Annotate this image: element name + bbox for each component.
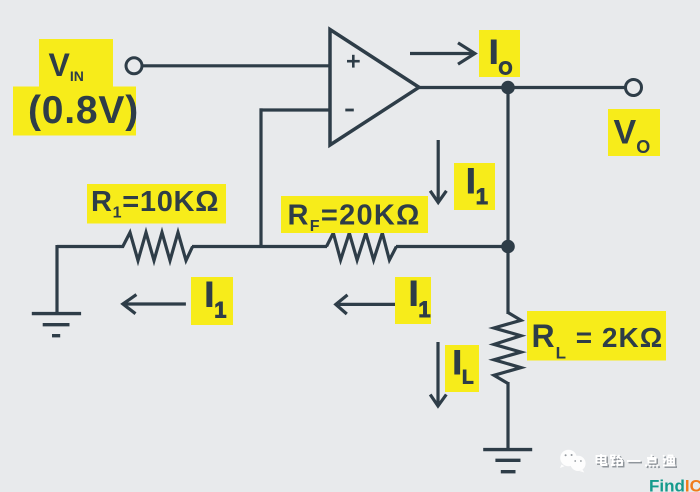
svg-text:RF=20KΩ: RF=20KΩ — [288, 200, 421, 236]
right ground — [483, 450, 532, 472]
resistor RL — [494, 313, 521, 384]
op-amp minus sign — [345, 109, 354, 112]
label IL — [445, 345, 479, 392]
terminal: VIN input circle — [126, 58, 142, 74]
arrow: I1 left (through R1) — [123, 295, 186, 314]
wire: output node down to feedback node — [506, 88, 509, 247]
label Io — [479, 30, 520, 77]
label I1 left — [191, 277, 233, 325]
left ground — [32, 314, 81, 336]
op-amp plus sign — [347, 55, 360, 68]
arrow: IL down into RL — [430, 342, 446, 406]
label (0.8V) — [13, 87, 136, 136]
label R1=10K — [87, 184, 226, 224]
watermark text 电路一点通 — [598, 456, 677, 469]
label RF=20K — [281, 196, 428, 233]
wire: RF to node — [396, 245, 508, 248]
arrow: I1 down into feedback node — [430, 140, 446, 202]
wire: left ground to R1 — [57, 245, 120, 248]
wire: op-amp -in horizontal — [260, 108, 332, 111]
label VIN — [39, 39, 113, 87]
op-amp U1 — [330, 30, 419, 146]
svg-text:FindIC: FindIC — [649, 477, 700, 492]
wire: input terminal to op-amp +in — [142, 64, 331, 67]
node: output junction — [501, 81, 515, 95]
terminal: VO output circle — [626, 80, 642, 96]
arrow: I1 left (through RF) — [336, 295, 397, 314]
node: feedback junction — [501, 240, 515, 254]
arrow: Io current right — [410, 43, 475, 64]
wire: op-amp output to terminal — [419, 86, 627, 89]
label I1 middle — [395, 277, 431, 324]
svg-text:(0.8V): (0.8V) — [28, 89, 139, 132]
wire: RL to right ground — [506, 382, 509, 450]
wire: left ground stub — [55, 245, 58, 313]
svg-text:R1=10KΩ: R1=10KΩ — [91, 186, 219, 222]
watermark wechat icon — [560, 450, 586, 473]
wire: node down to RL — [506, 247, 509, 315]
resistor RF — [327, 233, 397, 260]
wire: R1 to RF — [192, 245, 327, 248]
label RL=2K — [527, 311, 666, 361]
label I1 top — [454, 163, 495, 210]
wire: feedback vertical — [259, 108, 262, 248]
resistor R1 — [120, 233, 193, 261]
label Vo — [608, 109, 660, 156]
